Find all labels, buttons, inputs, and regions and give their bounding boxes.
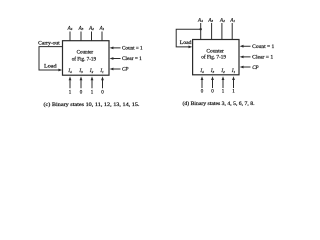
svg-text:(c) Binary states 10, 11, 12,: (c) Binary states 10, 11, 12, 13, 14, 15… [44, 103, 140, 108]
svg-text:I3: I3 [78, 69, 83, 74]
svg-text:CP: CP [122, 68, 128, 73]
svg-text:I3: I3 [210, 69, 215, 74]
svg-text:A2: A2 [88, 26, 94, 31]
svg-text:CP: CP [252, 66, 258, 71]
svg-text:Count = 1: Count = 1 [252, 45, 275, 50]
svg-text:Clear = 1: Clear = 1 [252, 56, 274, 61]
svg-text:A1: A1 [229, 18, 235, 23]
svg-text:1: 1 [91, 90, 94, 95]
svg-text:of Fig. 7-19: of Fig. 7-19 [72, 57, 97, 62]
svg-text:Load: Load [180, 41, 192, 46]
svg-text:Count = 1: Count = 1 [122, 47, 143, 52]
svg-text:I4: I4 [67, 69, 72, 74]
svg-text:0: 0 [101, 90, 104, 95]
svg-text:I2: I2 [220, 69, 225, 74]
svg-text:I2: I2 [89, 69, 94, 74]
svg-text:A4: A4 [197, 18, 203, 23]
svg-text:1: 1 [69, 90, 72, 95]
svg-text:1: 1 [222, 89, 225, 94]
svg-text:Carry-out: Carry-out [38, 42, 60, 47]
svg-text:I1: I1 [231, 69, 236, 74]
svg-text:A4: A4 [67, 26, 73, 31]
svg-text:of Fig. 7-19: of Fig. 7-19 [201, 56, 226, 61]
svg-text:0: 0 [80, 90, 83, 95]
svg-text:Load: Load [44, 64, 57, 69]
svg-text:Clear = 1: Clear = 1 [122, 57, 142, 62]
svg-text:A2: A2 [219, 18, 225, 23]
svg-text:0: 0 [201, 89, 204, 94]
svg-text:I4: I4 [199, 69, 204, 74]
svg-text:A3: A3 [207, 18, 213, 23]
svg-text:I1: I1 [99, 69, 104, 74]
svg-text:(d) Binary states 3, 4, 5, 6,: (d) Binary states 3, 4, 5, 6, 7, 8. [183, 102, 255, 107]
svg-text:A1: A1 [99, 26, 105, 31]
svg-text:0: 0 [211, 89, 214, 94]
svg-text:Counter: Counter [77, 51, 94, 56]
svg-text:A3: A3 [78, 26, 84, 31]
svg-text:Counter: Counter [206, 49, 224, 54]
svg-text:1: 1 [232, 89, 235, 94]
